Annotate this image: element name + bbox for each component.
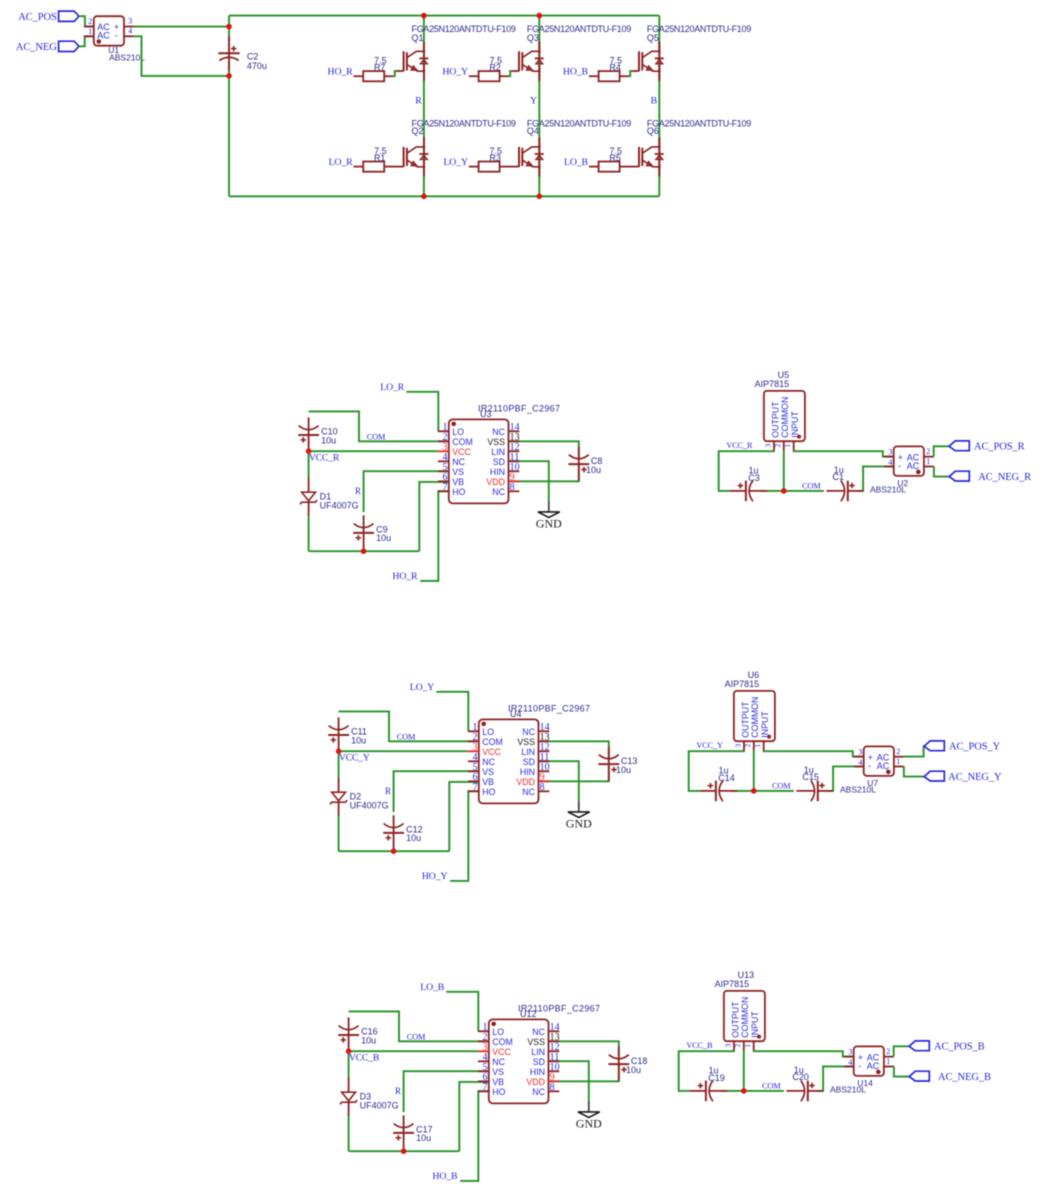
junction R top bus: [421, 13, 427, 19]
svg-text:VDD: VDD: [526, 1077, 545, 1087]
gate driver U3 IR2110PBF_C2967: [438, 403, 560, 503]
capacitor C19 1u: [691, 1066, 728, 1102]
wire VDD to C8: [509, 464, 579, 481]
wire AC_POS to U1 pin2: [79, 16, 94, 26]
wire left DC vertical: [228, 16, 230, 197]
net label LO_R: [380, 382, 405, 393]
resistor R3 7.5: [469, 146, 509, 172]
wire VS to C9: [364, 471, 449, 512]
wire R1 to Q2 gate: [393, 166, 397, 168]
wire U13 COMMON down: [743, 1051, 745, 1091]
svg-text:NC: NC: [522, 787, 535, 797]
svg-text:VCC_B: VCC_B: [686, 1041, 713, 1050]
wire U2 pin2 to AC_POS_R: [934, 446, 949, 456]
svg-text:COM: COM: [452, 437, 473, 447]
svg-text:HIN: HIN: [520, 767, 535, 777]
svg-text:INPUT: INPUT: [760, 711, 770, 738]
svg-text:LO_B: LO_B: [420, 982, 445, 993]
wire VB riser: [449, 782, 479, 851]
transistor Q2 FGA25N120ANTDTU-F109: [396, 119, 516, 177]
svg-text:4: 4: [128, 27, 132, 36]
junction bottom at C9: [361, 548, 367, 554]
svg-text:AC_POS: AC_POS: [18, 12, 57, 23]
svg-text:7: 7: [483, 1082, 488, 1093]
net label LO_R: [329, 157, 354, 168]
wire U6 INPUT to U7: [764, 751, 864, 757]
svg-text:LIN: LIN: [491, 447, 505, 457]
svg-text:COM: COM: [367, 432, 386, 441]
wire VCC_R down to D1: [308, 451, 310, 478]
wire +DC top bus: [229, 15, 659, 17]
svg-text:R: R: [395, 1086, 401, 1096]
svg-text:GND: GND: [566, 816, 592, 830]
svg-text:LO: LO: [452, 427, 464, 437]
capacitor C14 1u: [701, 766, 738, 802]
svg-text:8: 8: [510, 482, 515, 493]
wire U13 INPUT to U14: [754, 1051, 854, 1057]
resistor R1 7.5: [354, 146, 394, 172]
wire cap rail C14-C15: [731, 790, 794, 792]
wire VSS to C8: [509, 441, 579, 459]
gate driver U4 IR2110PBF_C2967: [468, 703, 590, 803]
svg-text:VSS: VSS: [527, 1037, 545, 1047]
svg-text:AC_POS_R: AC_POS_R: [974, 442, 1025, 453]
svg-text:ABS210L: ABS210L: [840, 785, 876, 795]
wire VDD to C13: [539, 764, 609, 781]
svg-text:1: 1: [753, 744, 762, 748]
wire SD to GND: [539, 761, 579, 801]
svg-text:AC: AC: [877, 761, 890, 771]
svg-text:VB: VB: [492, 1077, 504, 1087]
svg-text:UF4007G: UF4007G: [350, 801, 389, 811]
svg-text:3: 3: [723, 1044, 732, 1048]
junction COMMON node (R): [781, 488, 787, 494]
port AC_NEG_B: [909, 1071, 991, 1083]
svg-text:R: R: [385, 786, 391, 796]
wire LO_B to pin1: [446, 992, 478, 1032]
regulator U5 AIP7815: [755, 370, 805, 451]
junction bottom at C17: [401, 1148, 407, 1154]
svg-text:HIN: HIN: [490, 467, 505, 477]
port AC_POS_Y: [924, 741, 1001, 753]
junction VCC_R at C10: [306, 448, 312, 454]
svg-text:Q2: Q2: [412, 126, 424, 136]
svg-text:NC: NC: [532, 1027, 545, 1037]
svg-text:8: 8: [540, 782, 545, 793]
net label HO_Y: [442, 67, 468, 78]
svg-text:C19: C19: [708, 1073, 725, 1083]
svg-text:HO_R: HO_R: [392, 571, 418, 582]
svg-text:C15: C15: [802, 772, 819, 782]
svg-text:B: B: [651, 96, 658, 107]
capacitor C13 10u: [598, 747, 637, 781]
svg-text:R7: R7: [374, 63, 386, 73]
transistor Q6 FGA25N120ANTDTU-F109: [632, 119, 752, 177]
svg-text:R: R: [415, 96, 422, 107]
junction bottom at C12: [391, 848, 397, 854]
wire C1 to U2 pin4: [857, 466, 894, 491]
svg-text:10u: 10u: [361, 1035, 376, 1045]
svg-text:NC: NC: [532, 1087, 545, 1097]
svg-text:AIP7815: AIP7815: [755, 379, 790, 389]
svg-text:SD: SD: [493, 457, 505, 467]
svg-text:NC: NC: [492, 1057, 505, 1067]
svg-text:AC_POS_B: AC_POS_B: [934, 1042, 985, 1053]
svg-text:R: R: [355, 486, 361, 496]
svg-text:VS: VS: [482, 767, 494, 777]
svg-text:3: 3: [128, 17, 132, 26]
svg-text:NC: NC: [492, 487, 505, 497]
wire U13 OUTPUT to VCC_B: [679, 1051, 734, 1091]
svg-text:COMMON: COMMON: [740, 997, 750, 1038]
svg-text:NC: NC: [482, 757, 495, 767]
ground (driver Y): [566, 801, 592, 830]
svg-text:HO: HO: [452, 487, 465, 497]
bridge rectifier U14 ABS210L: [830, 1046, 894, 1094]
svg-text:10u: 10u: [616, 765, 631, 775]
svg-text:VCC: VCC: [482, 747, 501, 757]
svg-text:HO_Y: HO_Y: [442, 67, 468, 78]
net label COM (supply Y): [772, 782, 791, 791]
svg-text:FGA25N120ANTDTU-F109: FGA25N120ANTDTU-F109: [412, 119, 516, 129]
svg-text:2: 2: [926, 447, 930, 456]
transistor Q1 FGA25N120ANTDTU-F109: [396, 24, 516, 81]
svg-text:INPUT: INPUT: [790, 411, 800, 438]
wire LO_Y to pin1: [436, 692, 468, 732]
wire phase node R: [423, 16, 425, 197]
capacitor C10 10u: [298, 417, 337, 451]
svg-text:HO_B: HO_B: [432, 1171, 458, 1182]
capacitor C2 470u: [218, 37, 267, 71]
net label COM (driver B): [407, 1032, 426, 1041]
wire LO_R to pin1: [406, 392, 438, 432]
svg-text:R3: R3: [489, 153, 501, 163]
ground (driver R): [536, 501, 562, 530]
wire VSS to C13: [539, 741, 609, 759]
svg-text:COM: COM: [407, 1032, 426, 1041]
svg-text:AC: AC: [867, 1061, 880, 1071]
wire R7 to Q1 gate: [393, 71, 396, 76]
svg-text:AIP7815: AIP7815: [715, 979, 750, 989]
svg-text:NC: NC: [492, 427, 505, 437]
svg-text:GND: GND: [536, 516, 562, 530]
svg-text:VCC_Y: VCC_Y: [696, 741, 723, 750]
svg-text:10u: 10u: [416, 1133, 431, 1143]
net label COM (driver Y): [397, 732, 416, 741]
svg-text:VSS: VSS: [487, 437, 505, 447]
svg-text:VCC_R: VCC_R: [726, 441, 753, 450]
transistor Q5 FGA25N120ANTDTU-F109: [632, 24, 752, 81]
capacitor C17 10u: [393, 1115, 432, 1149]
svg-text:R5: R5: [609, 153, 621, 163]
svg-text:FGA25N120ANTDTU-F109: FGA25N120ANTDTU-F109: [527, 24, 631, 34]
svg-text:VDD: VDD: [516, 777, 535, 787]
svg-text:7: 7: [443, 482, 448, 493]
net label COM (supply R): [802, 482, 821, 491]
svg-text:ABS210L: ABS210L: [109, 53, 145, 63]
junction Y top bus: [537, 13, 543, 19]
svg-text:SD: SD: [533, 1057, 545, 1067]
port AC_NEG: [16, 41, 79, 53]
svg-text:SD: SD: [523, 757, 535, 767]
svg-text:OUTPUT: OUTPUT: [730, 1001, 740, 1038]
capacitor C16 10u: [338, 1017, 377, 1051]
svg-text:Q6: Q6: [647, 126, 659, 136]
svg-text:VS: VS: [452, 467, 464, 477]
svg-text:2: 2: [886, 1047, 890, 1056]
wire R3 to Q4 gate: [508, 166, 512, 168]
svg-text:-: -: [868, 761, 871, 771]
svg-text:HO_B: HO_B: [563, 67, 589, 78]
bridge rectifier U2 ABS210L: [870, 446, 934, 494]
diode D2 UF4007G: [330, 778, 389, 816]
resistor R5 7.5: [589, 146, 629, 172]
wire HO to HO_B: [460, 1091, 489, 1181]
svg-text:10u: 10u: [351, 735, 366, 745]
net label VCC_B: [349, 1053, 379, 1064]
svg-text:LO_Y: LO_Y: [443, 157, 468, 168]
svg-text:C20: C20: [792, 1072, 809, 1082]
svg-text:R1: R1: [374, 153, 386, 163]
wire -DC bottom bus: [229, 195, 659, 197]
net label LO_B: [420, 982, 445, 993]
svg-text:HO: HO: [482, 787, 495, 797]
svg-text:FGA25N120ANTDTU-F109: FGA25N120ANTDTU-F109: [647, 24, 751, 34]
svg-text:ABS210L: ABS210L: [870, 485, 906, 495]
wire AC_NEG to U1 pin1: [79, 36, 94, 46]
svg-text:7: 7: [473, 782, 478, 793]
svg-text:3: 3: [733, 744, 742, 748]
svg-text:COM: COM: [492, 1037, 513, 1047]
svg-text:3: 3: [858, 748, 862, 757]
diode D3 UF4007G: [340, 1078, 399, 1116]
junction COMMON node (Y): [751, 788, 757, 794]
svg-text:10u: 10u: [321, 435, 336, 445]
wire U5 INPUT to U2: [794, 451, 894, 457]
capacitor C11 10u: [328, 717, 367, 751]
wire VCC_B down to D1: [348, 1051, 350, 1078]
net label VCC_B (supply): [686, 1041, 713, 1050]
svg-text:VDD: VDD: [486, 477, 505, 487]
junction Y bottom bus: [537, 194, 543, 200]
capacitor C9 10u: [353, 515, 391, 549]
net label HO_R: [328, 67, 354, 78]
wire VSS to C18: [549, 1041, 619, 1059]
wire C20 to U14 pin4: [817, 1066, 854, 1091]
net label HO_R: [392, 571, 418, 582]
svg-text:HO_R: HO_R: [328, 67, 354, 78]
wire U1 pin4 to C2 node: [134, 36, 229, 76]
svg-text:-: -: [115, 31, 118, 41]
wire U7 pin2 to AC_POS_Y: [904, 746, 924, 756]
capacitor C3 1u: [731, 466, 768, 502]
wire R4 to Q5 gate: [629, 71, 632, 76]
svg-text:1: 1: [743, 1044, 752, 1048]
wire U6 COMMON down: [753, 751, 755, 791]
net label phase Y: [530, 96, 537, 107]
svg-text:COM: COM: [802, 482, 821, 491]
svg-text:COMMON: COMMON: [780, 397, 790, 438]
svg-text:VCC: VCC: [492, 1047, 511, 1057]
wire C16 top to COM: [349, 1011, 489, 1041]
resistor R4 7.5: [589, 56, 629, 82]
net label COM (supply B): [762, 1082, 781, 1091]
svg-text:2: 2: [733, 1044, 742, 1048]
svg-text:LO_R: LO_R: [329, 157, 354, 168]
svg-text:LO: LO: [492, 1027, 504, 1037]
svg-text:OUTPUT: OUTPUT: [740, 701, 750, 738]
wire R2 to Q3 gate: [509, 71, 512, 76]
svg-text:2: 2: [896, 747, 900, 756]
svg-text:VCC: VCC: [452, 447, 471, 457]
net label LO_Y: [443, 157, 468, 168]
capacitor C12 10u: [383, 815, 422, 849]
svg-text:LIN: LIN: [531, 1047, 545, 1057]
net label R (Y driver): [385, 786, 391, 796]
svg-text:3: 3: [888, 448, 892, 457]
svg-text:VB: VB: [452, 477, 464, 487]
wire VCC_Y down to D1: [338, 751, 340, 778]
regulator U6 AIP7815: [725, 670, 775, 751]
svg-text:10u: 10u: [626, 1065, 641, 1075]
svg-text:NC: NC: [452, 457, 465, 467]
net label HO_B: [563, 67, 589, 78]
svg-text:10u: 10u: [376, 533, 391, 543]
net label HO_B: [432, 1171, 458, 1182]
wire U2 pin1 to AC_NEG_R: [934, 466, 949, 476]
svg-text:C3: C3: [748, 473, 760, 483]
svg-text:1: 1: [896, 757, 900, 766]
wire Q5 collector red overlay: [658, 42, 660, 177]
wire D1 to bottom rail: [348, 1116, 350, 1152]
wire VB riser: [419, 482, 449, 551]
svg-text:1: 1: [886, 1057, 890, 1066]
wire C15 to U7 pin4: [827, 766, 864, 791]
wire bottom rail to VB riser: [349, 1150, 460, 1152]
svg-text:COM: COM: [762, 1082, 781, 1091]
wire VS to C17: [404, 1071, 489, 1112]
svg-text:10u: 10u: [406, 833, 421, 843]
capacitor C1 1u: [826, 465, 863, 501]
wire cap rail C19-C20: [721, 1090, 784, 1092]
net label VCC_Y: [339, 753, 370, 764]
svg-text:10u: 10u: [586, 465, 601, 475]
net label LO_B: [564, 157, 589, 168]
wire U14 pin2 to AC_POS_B: [894, 1046, 909, 1056]
svg-text:470u: 470u: [247, 61, 267, 71]
wire D1 to bottom rail: [308, 516, 310, 552]
svg-text:VCC_Y: VCC_Y: [339, 753, 370, 764]
junction R bottom bus: [421, 194, 427, 200]
svg-text:Q4: Q4: [527, 126, 539, 136]
svg-text:U3: U3: [480, 409, 492, 419]
wire VCC net VCC_R: [309, 450, 438, 452]
svg-text:VSS: VSS: [517, 737, 535, 747]
net label LO_Y: [410, 682, 435, 693]
wire right DC vertical (B leg): [658, 16, 660, 197]
svg-text:OUTPUT: OUTPUT: [770, 401, 780, 438]
svg-text:U4: U4: [510, 709, 522, 719]
net label phase B: [651, 96, 658, 107]
svg-text:LO_R: LO_R: [380, 382, 405, 393]
gate driver U12 IR2110PBF_C2967: [478, 1003, 600, 1103]
svg-text:HO_Y: HO_Y: [422, 871, 448, 882]
svg-text:R4: R4: [609, 63, 621, 73]
svg-text:HIN: HIN: [530, 1067, 545, 1077]
capacitor C20 1u: [786, 1065, 823, 1101]
svg-text:FGA25N120ANTDTU-F109: FGA25N120ANTDTU-F109: [647, 119, 751, 129]
wire phase node Y: [538, 16, 540, 197]
bridge rectifier U1 ABS210L: [84, 16, 145, 62]
wire HO to HO_Y: [450, 791, 479, 881]
svg-text:VS: VS: [492, 1067, 504, 1077]
svg-text:AC_NEG_R: AC_NEG_R: [978, 472, 1031, 483]
svg-text:VB: VB: [482, 777, 494, 787]
port AC_POS_B: [909, 1041, 985, 1053]
svg-text:1: 1: [88, 27, 92, 36]
junction VCC_Y at C11: [336, 748, 342, 754]
regulator U13 AIP7815: [715, 970, 765, 1051]
svg-text:4: 4: [848, 1058, 852, 1067]
wire R5 to Q6 gate: [628, 166, 632, 168]
net label VCC_R: [309, 453, 340, 464]
svg-text:LO_Y: LO_Y: [410, 682, 435, 693]
wire VDD to C18: [549, 1064, 619, 1081]
svg-text:C1: C1: [832, 472, 844, 482]
net label VCC_R (supply): [726, 441, 753, 450]
svg-text:LO_B: LO_B: [564, 157, 589, 168]
resistor R7 7.5: [354, 56, 394, 82]
svg-text:ABS210L: ABS210L: [830, 1085, 866, 1095]
wire bottom rail to VB riser: [339, 850, 450, 852]
svg-text:COM: COM: [482, 737, 503, 747]
svg-text:4: 4: [888, 458, 892, 467]
wire D1 to bottom rail: [338, 816, 340, 852]
junction COMMON node (B): [741, 1088, 747, 1094]
svg-text:2: 2: [773, 444, 782, 448]
junction U1 pin4 node: [226, 73, 232, 79]
svg-text:VCC_R: VCC_R: [309, 453, 340, 464]
transistor Q3 FGA25N120ANTDTU-F109: [512, 24, 632, 81]
wire cap rail C3-C1: [761, 490, 824, 492]
net label COM (driver R): [367, 432, 386, 441]
svg-text:HO: HO: [492, 1087, 505, 1097]
svg-text:FGA25N120ANTDTU-F109: FGA25N120ANTDTU-F109: [412, 24, 516, 34]
svg-text:VCC_B: VCC_B: [349, 1053, 379, 1064]
svg-text:COM: COM: [397, 732, 416, 741]
wire C11 top to COM: [339, 711, 479, 741]
svg-text:2: 2: [743, 744, 752, 748]
svg-text:U12: U12: [520, 1009, 537, 1019]
svg-text:Q5: Q5: [647, 33, 659, 43]
svg-text:1: 1: [783, 444, 792, 448]
svg-text:LIN: LIN: [521, 747, 535, 757]
svg-text:LO: LO: [482, 727, 494, 737]
svg-text:AIP7815: AIP7815: [725, 679, 760, 689]
junction U1 pin3 node: [226, 24, 232, 30]
svg-text:UF4007G: UF4007G: [320, 501, 359, 511]
svg-text:FGA25N120ANTDTU-F109: FGA25N120ANTDTU-F109: [527, 119, 631, 129]
svg-text:COMMON: COMMON: [750, 697, 760, 738]
wire VS to C12: [394, 771, 479, 812]
port AC_NEG_R: [949, 471, 1031, 483]
transistor Q4 FGA25N120ANTDTU-F109: [512, 119, 632, 177]
bridge rectifier U7 ABS210L: [840, 746, 904, 794]
svg-text:2: 2: [88, 17, 92, 26]
svg-text:8: 8: [550, 1082, 555, 1093]
svg-text:1: 1: [926, 457, 930, 466]
capacitor C15 1u: [796, 765, 833, 801]
